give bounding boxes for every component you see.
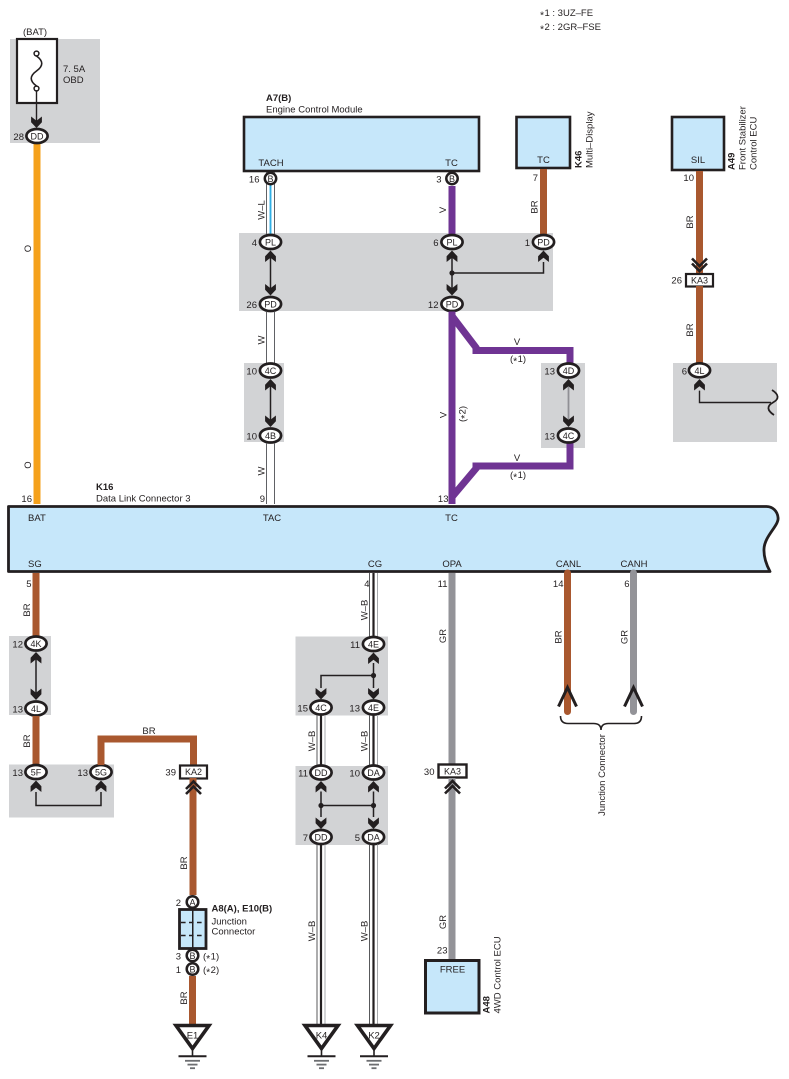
svg-text:FREE: FREE (440, 965, 465, 976)
svg-text:13: 13 (349, 704, 360, 715)
terminal 13 5G (77, 765, 111, 779)
svg-text:(*2): (*2) (203, 965, 219, 978)
wire BR 4L to 5F (33, 716, 40, 765)
svg-text:11: 11 (438, 579, 448, 590)
terminal 11 DD (298, 766, 331, 780)
svg-text:4D: 4D (563, 366, 575, 376)
terminal 15 4C (297, 701, 331, 715)
svg-text:11: 11 (350, 640, 360, 651)
svg-text:16: 16 (249, 175, 260, 186)
svg-text:7: 7 (533, 173, 538, 184)
svg-text:TC: TC (445, 513, 458, 524)
terminal 3 B (176, 950, 219, 965)
svg-text:SG: SG (28, 559, 42, 570)
terminal 26 PD (246, 297, 281, 311)
svg-text:E1: E1 (187, 1031, 199, 1042)
svg-text:10: 10 (349, 769, 360, 780)
wire BR A49 to KA3 (696, 171, 703, 274)
svg-text:*2 : 2GR–FSE: *2 : 2GR–FSE (540, 22, 601, 35)
wire W TAC lower (267, 443, 275, 504)
terminal 16 B (249, 173, 276, 186)
arrow pair PL-PD (265, 251, 276, 296)
open chevron CANH (625, 688, 643, 707)
svg-text:13: 13 (544, 432, 555, 443)
svg-text:PD: PD (537, 238, 550, 248)
svg-text:DD: DD (31, 132, 44, 142)
chevrons below KA3 (445, 781, 460, 794)
svg-text:4L: 4L (694, 366, 704, 376)
svg-text:30: 30 (424, 767, 435, 778)
svg-text:W–B: W–B (360, 731, 371, 752)
svg-text:6: 6 (682, 366, 687, 377)
svg-text:CANL: CANL (556, 559, 581, 570)
svg-text:W: W (257, 335, 268, 344)
svg-text:39: 39 (165, 768, 176, 779)
junction 26 KA3 (671, 274, 713, 287)
svg-text:Multi–Display: Multi–Display (585, 111, 596, 168)
junction 39 KA2 (165, 766, 207, 779)
wire W-B DA to K2 (370, 845, 378, 1027)
svg-text:4K: 4K (30, 639, 41, 649)
svg-text:23: 23 (437, 946, 448, 957)
svg-text:(*1): (*1) (510, 354, 526, 367)
svg-text:CG: CG (368, 559, 382, 570)
terminal 12 4K (12, 637, 46, 651)
wire W-B 4C to DD (317, 715, 325, 766)
terminal 7 DD (303, 830, 332, 844)
arrow pair 4K-4L (31, 652, 42, 700)
svg-text:V: V (438, 206, 449, 213)
svg-text:6: 6 (433, 238, 438, 249)
gray box right A49 area (673, 363, 777, 442)
link 5F-5G (31, 781, 107, 806)
svg-text:13: 13 (544, 367, 555, 378)
terminal 10 DA (349, 766, 384, 780)
svg-text:W: W (257, 466, 268, 475)
wire fuse to DD (36, 91, 38, 122)
svg-text:V: V (514, 453, 521, 464)
arrow into DD (31, 117, 42, 129)
svg-text:W–L: W–L (257, 200, 268, 220)
svg-text:SIL: SIL (691, 155, 705, 166)
ground E1 (176, 1026, 209, 1069)
svg-text:10: 10 (246, 367, 257, 378)
svg-text:PL: PL (265, 238, 276, 248)
gray box PL/PD band (239, 233, 553, 311)
wire W TAC upper (267, 312, 275, 365)
terminal 5 DA (355, 830, 384, 844)
terminal 13 4E (349, 701, 384, 715)
svg-text:GR: GR (620, 630, 631, 644)
svg-text:4E: 4E (368, 703, 379, 713)
svg-text:6: 6 (624, 579, 629, 590)
svg-text:9: 9 (260, 494, 265, 505)
svg-text:B: B (449, 174, 455, 184)
svg-text:K16: K16 (96, 482, 113, 493)
svg-text:TC: TC (445, 158, 458, 169)
wire BR KA3 to 4L (696, 286, 703, 363)
svg-text:KA3: KA3 (444, 767, 461, 777)
svg-text:13: 13 (12, 705, 23, 716)
svg-text:TC: TC (537, 155, 550, 166)
terminal 13 4L (12, 702, 46, 716)
junction links DD/DA pairs (316, 781, 379, 829)
svg-text:A48: A48 (482, 996, 493, 1013)
wire W-B 4E to DA (370, 715, 378, 766)
svg-text:BR: BR (142, 726, 155, 737)
wire W-B DD to K4 (317, 845, 325, 1027)
terminal 13 4C (544, 429, 579, 443)
ECM box (244, 117, 479, 171)
svg-text:PD: PD (446, 300, 459, 310)
svg-text:5F: 5F (31, 768, 42, 778)
svg-text:BR: BR (179, 856, 190, 869)
note engine codes (540, 8, 601, 35)
svg-text:(*2): (*2) (458, 406, 471, 422)
wire BR KA2 to A (190, 778, 197, 895)
svg-text:A49: A49 (727, 153, 738, 170)
wire V branch upper (452, 316, 570, 363)
svg-text:BR: BR (530, 200, 541, 213)
gray box fuse area (10, 39, 100, 143)
wire V TC (449, 186, 456, 236)
svg-text:14: 14 (553, 579, 564, 590)
brace junction connector (561, 716, 642, 730)
svg-text:3: 3 (436, 175, 441, 186)
svg-text:1: 1 (525, 238, 530, 249)
junction 30 KA3 (424, 765, 467, 779)
svg-text:K46: K46 (574, 151, 585, 168)
open chevron CANL (559, 688, 577, 707)
svg-text:W–B: W–B (307, 731, 318, 752)
svg-text:TACH: TACH (258, 158, 283, 169)
terminal 10 4B (246, 429, 281, 443)
break squiggle (768, 390, 777, 415)
wire to break (700, 391, 772, 403)
arrow pair 4D-4C (563, 379, 574, 427)
svg-text:11: 11 (298, 769, 308, 780)
svg-text:4C: 4C (315, 703, 327, 713)
svg-text:15: 15 (297, 704, 308, 715)
terminal 28 DD (13, 129, 47, 143)
svg-text:13: 13 (77, 768, 88, 779)
svg-text:5G: 5G (95, 768, 107, 778)
terminal 4 PL (252, 235, 281, 249)
svg-text:13: 13 (438, 494, 449, 505)
svg-text:1: 1 (176, 965, 181, 976)
gray box 4K/4L pair (9, 636, 51, 715)
terminal 3 B (436, 173, 457, 186)
svg-text:KA3: KA3 (691, 276, 708, 286)
svg-text:K4: K4 (316, 1031, 328, 1042)
svg-text:28: 28 (13, 132, 24, 143)
svg-text:GR: GR (438, 915, 449, 929)
wire GR KA3 to FREE (449, 778, 456, 961)
wire W-L TACH (267, 172, 275, 236)
svg-text:PL: PL (446, 238, 457, 248)
svg-text:4WD Control ECU: 4WD Control ECU (493, 936, 504, 1013)
svg-text:A7(B): A7(B) (266, 93, 291, 104)
svg-text:5: 5 (26, 579, 31, 590)
svg-text:7. 5A: 7. 5A (63, 64, 86, 75)
fuse 7.5A OBD box (17, 39, 86, 103)
terminal 6 4L (682, 363, 710, 377)
svg-text:12: 12 (12, 640, 23, 651)
svg-text:DD: DD (315, 768, 328, 778)
svg-text:Control ECU: Control ECU (749, 117, 760, 170)
svg-text:BR: BR (179, 991, 190, 1004)
K46 box (517, 117, 571, 168)
svg-text:10: 10 (246, 432, 257, 443)
gray box 5F/5G (9, 765, 114, 818)
junction connector block (180, 910, 207, 949)
svg-text:13: 13 (12, 768, 23, 779)
svg-text:Connector: Connector (212, 927, 256, 938)
gray box DD/DA junction (296, 766, 389, 845)
arrow pair PL-PD 2 (447, 251, 458, 296)
chevrons into KA3 (692, 259, 707, 272)
terminal 11 4E (350, 637, 384, 651)
ground K2 (358, 1026, 391, 1069)
svg-text:4B: 4B (265, 431, 276, 441)
wire GR CANH (630, 573, 637, 712)
svg-text:V: V (439, 411, 450, 418)
svg-text:BR: BR (685, 323, 696, 336)
svg-text:BR: BR (22, 734, 33, 747)
chevrons below KA2 (186, 782, 201, 795)
svg-text:PD: PD (264, 300, 277, 310)
svg-text:4C: 4C (265, 366, 277, 376)
svg-text:5: 5 (355, 833, 360, 844)
svg-text:DD: DD (315, 833, 328, 843)
orange wire O to band (34, 140, 41, 504)
svg-text:TAC: TAC (263, 513, 281, 524)
svg-text:O: O (23, 245, 34, 252)
terminal 2 A (176, 896, 199, 909)
junction dot and link to 1 PD (449, 251, 548, 276)
svg-text:KA2: KA2 (185, 767, 202, 777)
wire GR OPA to KA3 (449, 573, 456, 765)
K16 Data Link Connector 3 band (9, 507, 779, 572)
svg-text:O: O (23, 461, 34, 468)
svg-text:*1 : 3UZ–FE: *1 : 3UZ–FE (540, 8, 593, 21)
terminal 13 4D (544, 364, 579, 378)
svg-text:(*1): (*1) (203, 952, 219, 965)
svg-text:Junction Connector: Junction Connector (597, 734, 608, 816)
gray box 4D/4C pair (541, 363, 585, 448)
svg-text:K2: K2 (368, 1031, 380, 1042)
svg-text:3: 3 (176, 952, 181, 963)
A49 box (672, 117, 724, 170)
svg-text:10: 10 (683, 173, 694, 184)
svg-text:(*1): (*1) (510, 470, 526, 483)
arrow pair 4C-4B (265, 379, 276, 427)
svg-text:DA: DA (367, 833, 380, 843)
svg-text:A8(A), E10(B): A8(A), E10(B) (212, 904, 273, 915)
wire BR 5G to KA2 (101, 739, 194, 766)
svg-text:CANH: CANH (621, 559, 648, 570)
svg-text:(BAT): (BAT) (23, 27, 47, 38)
wire BR SG to 4K (33, 573, 40, 637)
svg-text:DA: DA (367, 768, 380, 778)
A48 FREE box (426, 961, 480, 1014)
svg-text:OBD: OBD (63, 75, 84, 86)
arrow into 4L (694, 379, 705, 391)
svg-text:26: 26 (246, 300, 257, 311)
svg-text:Engine Control Module: Engine Control Module (266, 105, 363, 116)
svg-text:B: B (189, 964, 195, 974)
svg-text:7: 7 (303, 833, 308, 844)
svg-text:GR: GR (438, 629, 449, 643)
svg-text:V: V (514, 337, 521, 348)
svg-text:4L: 4L (31, 704, 41, 714)
svg-text:Front Stabilizer: Front Stabilizer (738, 106, 749, 170)
svg-text:B: B (267, 174, 273, 184)
terminal 12 PD (428, 297, 463, 311)
terminal 1 B (176, 963, 219, 978)
terminal 1 PD (525, 235, 554, 249)
svg-text:W–B: W–B (360, 600, 371, 621)
svg-text:26: 26 (671, 276, 682, 287)
wire BR B to E1 (189, 976, 196, 1026)
gray box 4C/4B pair (244, 363, 284, 442)
svg-text:A: A (189, 897, 195, 907)
svg-text:BR: BR (554, 630, 565, 643)
svg-text:BR: BR (22, 603, 33, 616)
svg-text:BAT: BAT (28, 513, 46, 524)
svg-text:Data Link Connector 3: Data Link Connector 3 (96, 494, 191, 505)
wire BR CANL (564, 573, 571, 712)
terminal 6 PL (433, 235, 462, 249)
svg-text:4E: 4E (368, 640, 379, 650)
ground K4 (305, 1026, 338, 1069)
svg-text:OPA: OPA (442, 559, 462, 570)
svg-text:BR: BR (685, 215, 696, 228)
svg-text:16: 16 (21, 494, 32, 505)
wire V branch lower (452, 443, 570, 497)
svg-text:W–B: W–B (360, 921, 371, 942)
junction links 4E to 4C/4E (316, 653, 379, 700)
gray box 4E junction (296, 637, 389, 716)
wire W-B CG to 4E (370, 573, 378, 637)
svg-text:4: 4 (252, 238, 257, 249)
svg-text:4C: 4C (563, 431, 575, 441)
svg-text:W–B: W–B (307, 921, 318, 942)
svg-text:4: 4 (364, 579, 369, 590)
wire V main 12PD to TC (449, 312, 456, 505)
svg-text:B: B (189, 951, 195, 961)
terminal 13 5F (12, 765, 46, 779)
wire BR K46 to PD (540, 169, 547, 236)
svg-text:12: 12 (428, 300, 439, 311)
svg-text:2: 2 (176, 898, 181, 909)
terminal 10 4C (246, 364, 281, 378)
